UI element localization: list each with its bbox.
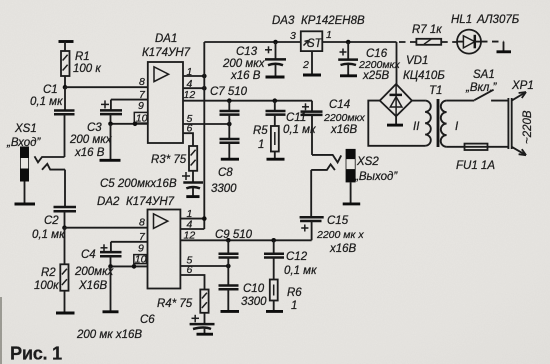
resistor R4 (157, 290, 209, 325)
capacitor C9 (215, 229, 253, 266)
pin 7 wire (111, 89, 148, 110)
svg-text:1: 1 (258, 139, 264, 151)
node B (C2/R2/pin8 DA2) (62, 225, 67, 230)
capacitor C2 (32, 170, 76, 241)
wire winding I top to switch (447, 100, 475, 102)
node A (R1/C1/pin8) (63, 85, 68, 90)
capacitor C8 (211, 124, 240, 195)
svg-text:3300: 3300 (211, 183, 237, 195)
svg-text:200 мк х16В: 200 мк х16В (76, 329, 142, 341)
svg-text:DA3: DA3 (272, 15, 295, 27)
connector XS1 plug (6, 123, 41, 204)
svg-text:КЦ410Б: КЦ410Б (403, 70, 445, 82)
pin 10 boxed (134, 112, 148, 124)
ground (C5) (186, 195, 199, 198)
scan edge bottom-left (0, 297, 2, 364)
svg-text:C10: C10 (243, 283, 265, 295)
jack lower contact XS2 (311, 164, 335, 170)
top rail wire (204, 40, 300, 45)
ground (R5) (267, 158, 285, 161)
svg-text:х16 В: х16 В (74, 147, 105, 159)
svg-text:R1: R1 (75, 51, 90, 63)
wire pins 9/10 node DA2 (108, 264, 147, 269)
svg-text:3300: 3300 (241, 296, 267, 308)
capacitor C4 (74, 244, 122, 292)
ground (C8) (221, 158, 239, 161)
resistor R3 (151, 146, 197, 183)
wire pins 9/10 node (108, 122, 148, 127)
svg-text:C2: C2 (44, 215, 59, 227)
svg-text:C15: C15 (327, 215, 349, 227)
svg-text:0,1 мк: 0,1 мк (30, 96, 63, 108)
pin 12 wire DA2 (180, 230, 311, 243)
transformer T1 winding I (441, 101, 459, 147)
wire pin 8 DA2 (65, 227, 148, 229)
op-amp DA1 (142, 33, 191, 143)
capacitor C3 (69, 100, 122, 159)
svg-text:200мкх: 200мкх (74, 266, 115, 278)
svg-text:АЛ307Б: АЛ307Б (476, 14, 520, 26)
capacitor C13 (222, 42, 286, 82)
ground (HL1) (497, 50, 512, 53)
capacitor C1 (30, 84, 75, 157)
svg-text:8: 8 (139, 76, 145, 88)
svg-text:C7 510: C7 510 (210, 86, 248, 98)
wire dashed HL1 to ground (481, 42, 504, 51)
jack upper contact XS2 (312, 155, 341, 163)
pin 6 wire DA1 (183, 123, 193, 147)
svg-text:C1: C1 (43, 84, 58, 96)
diode bridge VD1 (380, 55, 446, 116)
svg-text:8: 8 (139, 217, 145, 229)
capacitor C11 (266, 101, 317, 136)
resistor R2 (34, 228, 69, 313)
svg-text:0,1 мк: 0,1 мк (32, 229, 65, 241)
svg-text:100 к: 100 к (73, 63, 101, 75)
svg-text:R6: R6 (287, 287, 302, 299)
resistor R7 (412, 24, 442, 45)
pin 4 wire DA2 (180, 219, 204, 231)
ground (C10) (221, 310, 240, 313)
svg-text:Х16В: Х16В (78, 280, 107, 292)
svg-text:0,1 мк: 0,1 мк (284, 265, 317, 277)
switch SA1 (465, 69, 508, 101)
svg-text:10: 10 (136, 113, 148, 125)
svg-text:х16В: х16В (330, 124, 358, 136)
wire dashed to R7 (399, 41, 416, 43)
pin 7 wire DA2 (111, 231, 148, 252)
svg-text:R2: R2 (41, 267, 56, 279)
svg-text:C3: C3 (87, 122, 102, 134)
svg-text:1: 1 (326, 29, 332, 41)
svg-text:Рис. 1: Рис. 1 (10, 344, 62, 364)
svg-text:2: 2 (302, 59, 309, 71)
capacitor C6 (76, 314, 215, 341)
svg-text:К174УН7: К174УН7 (126, 196, 175, 208)
ground (C4) (103, 266, 119, 311)
svg-text:C6: C6 (140, 314, 155, 326)
wire dashed R7 to HL1 (441, 41, 457, 43)
pin 4 wire DA1 (183, 78, 207, 90)
svg-text:„Выход”: „Выход” (354, 171, 398, 183)
supply bus vertical (203, 42, 205, 229)
svg-text:200 мкх: 200 мкх (69, 134, 113, 146)
svg-text:SA1: SA1 (473, 69, 495, 81)
svg-text:C8: C8 (218, 167, 233, 179)
connector XS2 plug (343, 149, 399, 204)
pin 10 boxed DA2 (134, 253, 147, 265)
svg-text:DA1: DA1 (155, 33, 177, 45)
resistor R6 (270, 280, 303, 313)
svg-text:HL1: HL1 (451, 14, 472, 26)
svg-text:х16В: х16В (329, 243, 357, 255)
svg-text:10: 10 (135, 253, 147, 265)
wire winding I bottom to fuse (447, 146, 509, 148)
svg-text:х25В: х25В (362, 70, 390, 82)
ground (bridge) (387, 116, 403, 125)
svg-text:К174УН7: К174УН7 (142, 47, 191, 59)
ground (C6) (197, 333, 214, 336)
ground (R2) (56, 312, 75, 315)
wire DA3 pin2 to ground (303, 51, 321, 75)
regulator DA3 (272, 15, 365, 71)
jack lower contact XS1 (42, 164, 65, 170)
svg-text:„Вкл.”: „Вкл.” (465, 82, 498, 94)
svg-text:XS2: XS2 (356, 156, 379, 168)
svg-text:R5: R5 (253, 125, 268, 137)
wire pin 8 DA1 (65, 86, 148, 88)
connector XP1 (508, 80, 534, 155)
svg-text:VD1: VD1 (406, 55, 428, 67)
svg-text:КР142ЕН8В: КР142ЕН8В (301, 15, 365, 27)
svg-text:FU1 1А: FU1 1А (456, 160, 495, 172)
capacitor C12 (264, 240, 317, 279)
fuse FU1 (456, 144, 495, 172)
svg-text:2200 мк х: 2200 мк х (316, 229, 364, 241)
svg-text:12: 12 (184, 89, 196, 101)
ground (C13) (266, 76, 285, 79)
wire bridge right to winding II (412, 100, 425, 102)
op-amp DA2 (97, 196, 180, 289)
svg-text:1: 1 (291, 300, 297, 312)
ground (C16) (340, 74, 357, 77)
svg-text:~220В: ~220В (522, 110, 534, 144)
resistor R1 (59, 42, 102, 88)
capacitor C7 (210, 86, 248, 124)
transformer T1 winding II (413, 101, 431, 146)
capacitor C10 (219, 266, 268, 311)
capacitor C14 (301, 99, 366, 155)
svg-text:9: 9 (138, 100, 144, 112)
ground (C3) (100, 124, 121, 161)
transformer T1 core (429, 85, 442, 147)
pin 5 wire DA1 (183, 113, 232, 126)
svg-text:II: II (413, 121, 420, 133)
svg-text:C12: C12 (286, 251, 308, 263)
resistor R5 (253, 125, 279, 159)
svg-text:C5 200мкх16В: C5 200мкх16В (100, 178, 177, 190)
svg-text:2200мкх: 2200мкх (323, 112, 366, 124)
pin 1 wire DA2 (180, 208, 206, 221)
svg-text:DA2: DA2 (97, 196, 120, 208)
wire XS2 to C15 (310, 170, 312, 217)
wire bridge left to winding II (368, 101, 425, 146)
svg-text:XS1: XS1 (14, 123, 37, 135)
svg-text:R3* 75: R3* 75 (151, 154, 187, 166)
svg-text:100к: 100к (34, 280, 59, 292)
wire rail right of DA3 (322, 40, 396, 84)
LED HL1 (451, 14, 520, 54)
svg-text:C14: C14 (329, 99, 350, 111)
jack upper contact XS1 (35, 156, 65, 162)
svg-text:C4: C4 (81, 249, 96, 261)
capacitor C15 (300, 215, 365, 255)
svg-text:C9 510: C9 510 (215, 229, 253, 241)
svg-text:R4* 75: R4* 75 (157, 298, 193, 310)
svg-text:C13: C13 (236, 46, 258, 58)
pin 6 wire DA2 (180, 264, 204, 290)
pin 1 wire DA1 (183, 66, 207, 78)
svg-text:R7 1к: R7 1к (412, 24, 442, 36)
svg-text:х16 В: х16 В (230, 70, 261, 82)
capacitor C5 (100, 172, 203, 196)
svg-text:ST: ST (307, 38, 323, 50)
svg-text:Т1: Т1 (429, 85, 442, 97)
ground (R6) (266, 310, 283, 313)
pin 12 wire DA1 (output) (183, 89, 312, 103)
capacitor C16 (338, 42, 400, 82)
svg-text:3: 3 (290, 30, 296, 42)
svg-text:200 мкх: 200 мкх (222, 58, 266, 70)
svg-text:ХР1: ХР1 (511, 80, 534, 92)
pin 5 wire DA2 (180, 255, 230, 269)
